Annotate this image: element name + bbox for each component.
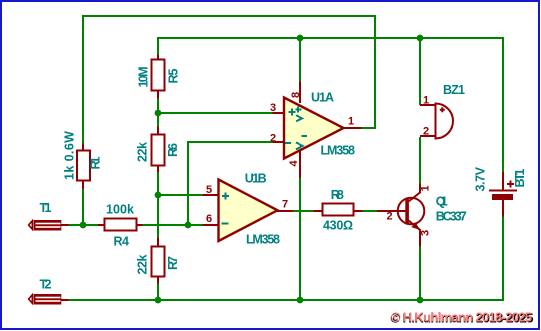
wire U1B pin7 to R8 — [293, 210, 314, 212]
svg-text:1k 0.6W: 1k 0.6W — [63, 131, 77, 180]
wire bottom ground rail — [68, 216, 503, 300]
node junction R5/R6/pin3 — [155, 110, 162, 117]
copyright text — [391, 310, 534, 326]
wire V+ top rail — [158, 38, 503, 172]
svg-text:BZ1: BZ1 — [443, 83, 465, 97]
resistor R1 — [63, 131, 103, 189]
resistor R7 — [136, 238, 181, 284]
wire node to U1A pin3 — [158, 112, 273, 114]
svg-text:22k: 22k — [136, 142, 150, 162]
node junction rail/pin8 — [297, 35, 304, 42]
svg-text:1: 1 — [348, 116, 354, 128]
node junction rail/pin4 — [297, 297, 304, 304]
svg-text:3.7V: 3.7V — [474, 166, 488, 191]
wire T1 to R4 — [68, 224, 99, 226]
svg-text:22k: 22k — [136, 254, 150, 274]
svg-text:R1: R1 — [89, 156, 103, 169]
svg-text:1: 1 — [420, 185, 432, 191]
battery BT1 — [474, 166, 528, 216]
svg-text:T2: T2 — [40, 278, 52, 292]
resistor R4 — [98, 203, 143, 249]
op-amp U1A — [270, 82, 362, 179]
svg-text:2: 2 — [387, 211, 393, 223]
wire R6 bottom to R7 top — [157, 172, 159, 238]
svg-text:R6: R6 — [166, 143, 180, 157]
node junction R4/pin6/pin2 — [185, 222, 192, 229]
wire pin6 node up to U1A pin2 — [188, 142, 273, 225]
svg-text:6: 6 — [206, 213, 212, 225]
resistor R5 — [137, 55, 181, 99]
transistor Q1 — [377, 184, 467, 247]
svg-text:2: 2 — [270, 133, 276, 145]
svg-text:2: 2 — [423, 126, 429, 138]
svg-text:3: 3 — [420, 230, 432, 236]
node junction R6/R7/pin5 — [155, 192, 162, 199]
resistor R6 — [136, 127, 181, 173]
wire R1 bottom to T1 junction — [82, 188, 84, 225]
resistor R8 — [314, 188, 363, 233]
svg-text:BT1: BT1 — [513, 168, 527, 187]
svg-text:100k: 100k — [106, 203, 134, 217]
buzzer BZ1 — [420, 83, 465, 140]
wire R7 bottom to rail — [157, 283, 159, 300]
svg-text:10M: 10M — [137, 67, 151, 88]
svg-text:1: 1 — [423, 95, 429, 107]
node junction rail/BZ1 — [417, 35, 424, 42]
svg-text:© H.Kuhlmann 2018-2025: © H.Kuhlmann 2018-2025 — [391, 310, 532, 325]
wire R4 to U1B pin6 — [142, 224, 203, 226]
wire rail to U1A pin8 — [299, 38, 301, 82]
svg-text:R4: R4 — [114, 235, 130, 249]
node junction R1/T1/R4 — [80, 222, 87, 229]
wire R8 to Q1 base — [362, 210, 378, 212]
terminal T1 — [29, 201, 69, 231]
svg-text:U1B: U1B — [245, 172, 267, 186]
wire node to U1B pin5 — [158, 194, 203, 196]
svg-text:T1: T1 — [40, 201, 52, 215]
wire U1A pin4 down to bottom rail — [299, 168, 301, 300]
wire net U1A output feedback: top-left rail — [83, 16, 375, 144]
op-amp U1B — [203, 172, 294, 247]
svg-text:R7: R7 — [166, 256, 180, 270]
svg-text:7: 7 — [282, 199, 288, 211]
svg-text:R8: R8 — [331, 188, 344, 202]
wire Q1 emitter to bottom rail — [419, 246, 421, 300]
wire rail to BZ1 pin1 — [419, 38, 421, 105]
svg-text:U1A: U1A — [311, 91, 334, 105]
wire R5 bottom to R6 top — [157, 98, 159, 127]
svg-text:LM358: LM358 — [321, 144, 356, 158]
svg-text:BC337: BC337 — [436, 210, 467, 224]
node junction rail/emitter — [417, 297, 424, 304]
wire BZ1 pin2 to Q1 collector — [419, 137, 421, 184]
svg-text:LM358: LM358 — [246, 233, 280, 247]
svg-text:3: 3 — [270, 102, 276, 114]
svg-text:8: 8 — [290, 92, 302, 98]
svg-text:Q1: Q1 — [436, 195, 448, 209]
svg-text:430Ω: 430Ω — [323, 219, 353, 233]
node junction rail/R7 — [155, 297, 162, 304]
svg-text:4: 4 — [288, 160, 300, 167]
terminal T2 — [29, 278, 69, 305]
svg-text:5: 5 — [206, 184, 212, 196]
svg-text:R5: R5 — [167, 68, 181, 83]
